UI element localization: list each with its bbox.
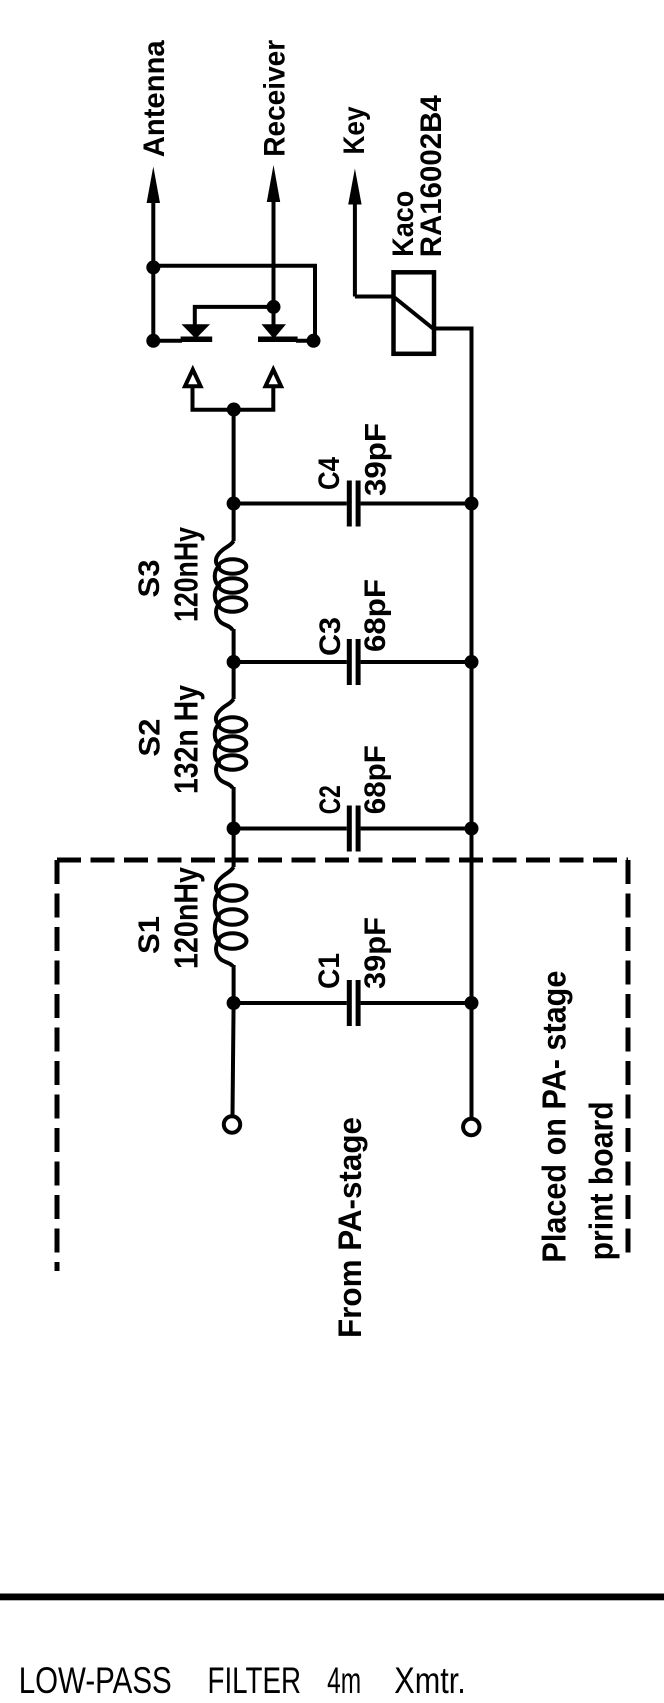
capacitor C1 plates bbox=[347, 980, 352, 1026]
junction right branch bottom bbox=[307, 334, 321, 348]
inductor S3 loop 3 bbox=[219, 597, 247, 611]
relay coil diagonal bbox=[395, 298, 434, 329]
wire left rail S3 to C3 bbox=[232, 629, 236, 699]
wire common pole down to filter bbox=[232, 410, 236, 504]
node Key terminal arrow bbox=[348, 169, 361, 205]
svg-text:Key: Key bbox=[338, 106, 371, 154]
junction antenna bottom bbox=[146, 334, 160, 348]
capacitor C3 right wire bbox=[361, 660, 472, 664]
wire pole Y left stem bbox=[193, 386, 274, 410]
svg-text:print board: print board bbox=[582, 1101, 619, 1260]
svg-text:S2: S2 bbox=[133, 719, 166, 757]
svg-text:C3: C3 bbox=[314, 617, 347, 656]
svg-text:120nHy: 120nHy bbox=[168, 866, 205, 969]
inductor S3 loop 2 bbox=[219, 578, 247, 592]
junction receiver branch bbox=[267, 300, 281, 314]
inductor S2 spine bbox=[215, 699, 234, 788]
wire left rail S1 to C1 bbox=[232, 965, 236, 1003]
svg-text:RA16002B4: RA16002B4 bbox=[415, 95, 448, 257]
contact K1b bar right bbox=[258, 337, 298, 343]
junction C2 left bbox=[227, 822, 241, 836]
terminal From PA-stage left circle bbox=[224, 1116, 240, 1132]
node Receiver terminal arrow bbox=[267, 165, 280, 202]
svg-text:68pF: 68pF bbox=[359, 579, 392, 652]
capacitor C2 plates bbox=[347, 806, 352, 852]
svg-text:132n Hy: 132n Hy bbox=[168, 684, 205, 794]
wire left rail S3 top bbox=[232, 504, 236, 542]
svg-text:LOW-PASS: LOW-PASS bbox=[19, 1660, 172, 1701]
inductor S1 loop 2 bbox=[219, 909, 247, 925]
svg-text:FILTER: FILTER bbox=[208, 1660, 302, 1701]
svg-text:Placed on PA- stage: Placed on PA- stage bbox=[536, 971, 573, 1263]
svg-text:From PA-stage: From PA-stage bbox=[332, 1117, 368, 1338]
junction C3 right bbox=[465, 655, 479, 669]
junction C3 left bbox=[227, 655, 241, 669]
capacitor C3 left wire bbox=[234, 660, 347, 664]
svg-text:C4: C4 bbox=[313, 457, 346, 490]
inductor S2 loop 1 bbox=[219, 717, 247, 731]
svg-text:Antenna: Antenna bbox=[138, 40, 171, 157]
junction C1 left bbox=[227, 996, 241, 1010]
svg-text:68pF: 68pF bbox=[359, 745, 392, 814]
svg-text:C2: C2 bbox=[314, 785, 347, 814]
contact moving pole open triangle right bbox=[266, 370, 282, 387]
svg-text:120nHy: 120nHy bbox=[168, 526, 205, 622]
wire relay to right rail bbox=[434, 329, 472, 504]
relay K1 coil box Kaco RA16002B4 bbox=[394, 272, 435, 354]
svg-text:S3: S3 bbox=[133, 560, 166, 598]
wire receiver branch to left contact bbox=[195, 307, 274, 326]
capacitor C2 left wire bbox=[234, 827, 347, 831]
wire left rail S2 to S1 bbox=[232, 787, 236, 867]
inductor S1 loop 3 bbox=[219, 933, 247, 949]
junction C4 right bbox=[465, 497, 479, 511]
svg-text:4m: 4m bbox=[327, 1660, 361, 1701]
capacitor C1 right wire bbox=[361, 1001, 472, 1005]
inductor S1 loop 1 bbox=[219, 885, 247, 901]
capacitor C4 plates bbox=[347, 481, 352, 527]
svg-text:Receiver: Receiver bbox=[259, 40, 292, 157]
svg-text:C1: C1 bbox=[313, 953, 346, 989]
junction antenna top bbox=[146, 260, 160, 274]
terminal From PA-stage right circle bbox=[463, 1119, 479, 1135]
node Antenna terminal arrow bbox=[147, 167, 160, 204]
wire antenna to left bar bbox=[153, 339, 182, 343]
wire Key lead bbox=[353, 201, 357, 297]
inductor S2 loop 2 bbox=[219, 736, 247, 750]
svg-text:39pF: 39pF bbox=[359, 917, 392, 989]
inductor S1 spine bbox=[215, 867, 234, 966]
wire Antenna lead bbox=[151, 199, 155, 341]
inductor S3 spine bbox=[215, 541, 234, 630]
contact K1a fixed triangle left bbox=[182, 324, 211, 339]
wire left rail to terminal bbox=[233, 1003, 234, 1115]
inductor S3 loop 1 bbox=[219, 559, 247, 573]
junction common pole bbox=[227, 403, 241, 417]
contact K1a bar left bbox=[181, 337, 213, 343]
wire key to relay coil bbox=[355, 295, 394, 299]
svg-text:39pF: 39pF bbox=[360, 423, 393, 496]
title block separator line bbox=[0, 1594, 664, 1601]
wire top horizontal from antenna to right branch bbox=[153, 266, 315, 341]
wire right bar to right branch bbox=[296, 339, 315, 343]
contact moving pole open triangle left bbox=[185, 370, 201, 387]
junction C2 right bbox=[465, 822, 479, 836]
capacitor C4 left wire bbox=[234, 502, 347, 506]
svg-text:Xmtr.: Xmtr. bbox=[394, 1660, 466, 1701]
contact K1b fixed triangle right bbox=[262, 324, 287, 339]
capacitor C1 left wire bbox=[234, 1001, 347, 1005]
junction C1 right bbox=[465, 996, 479, 1010]
capacitor C2 right wire bbox=[361, 827, 472, 831]
junction C4 left bbox=[227, 497, 241, 511]
capacitor C4 right wire bbox=[361, 502, 472, 506]
svg-text:S1: S1 bbox=[133, 916, 166, 954]
wire Receiver lead bbox=[272, 198, 276, 326]
wire right rail bbox=[470, 504, 474, 1118]
dashed outline Placed on PA-stage print board bbox=[57, 860, 628, 1271]
capacitor C3 plates bbox=[347, 639, 352, 685]
inductor S2 loop 3 bbox=[219, 755, 247, 769]
